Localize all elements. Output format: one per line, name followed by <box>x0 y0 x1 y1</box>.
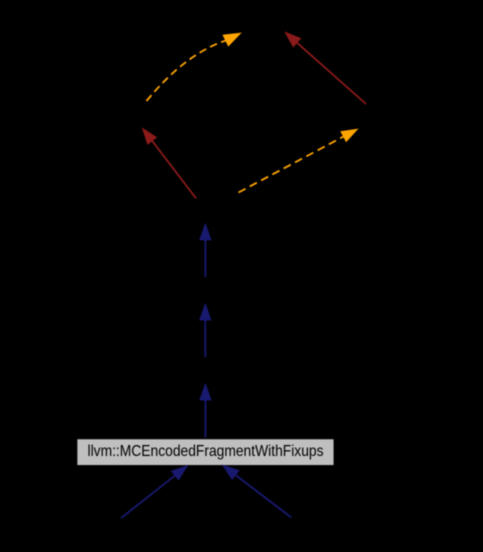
node llvm::MCFragment (invisible black box) <box>135 278 275 305</box>
node llvm::ilist_node (mid-left, invisible black box) <box>60 101 235 129</box>
label llvm::MCEncodedFragmentWithFixups <box>88 443 324 460</box>
arrowhead B (dark red) <box>285 32 300 46</box>
arrowhead G (blue) <box>200 384 211 400</box>
svg-text:llvm::MCEncodedFragmentWithFix: llvm::MCEncodedFragmentWithFixups <box>88 443 324 460</box>
arrowhead H (blue) <box>172 466 188 480</box>
arrowhead F (blue) <box>200 304 211 320</box>
arrowhead E (blue) <box>200 224 211 240</box>
arrowhead C (dark red) <box>143 129 157 145</box>
node llvm::ilist_node_with_parent instance (invisible black box) <box>68 199 344 225</box>
node llvm::MCDataFragment (bottom-left, invisible black box) <box>40 519 200 546</box>
arrowhead I (blue) <box>223 466 239 480</box>
inheritance arrow H: MCDataFragment to MCEncodedFragmentWithFixups (blue) <box>121 475 176 518</box>
inheritance arrow I: MCRelaxableFragment to MCEncodedFragmentWithFixups (blue) <box>235 475 291 518</box>
private-inheritance arrow B: mid-right node to top node (dark red) <box>297 43 366 104</box>
inheritance arrow E: MCFragment to ilist_node_with_parent (blue) <box>204 240 206 278</box>
template-instantiation arrow A: ilist_node<MCFragment> to ilist_node (orange dashed, curved) <box>147 41 226 102</box>
template-instantiation arrow D: instance to generic ilist_node_with_parent (orange dashed) <box>239 137 344 193</box>
node llvm::MCRelaxableFragment (bottom-right, invisible black box) <box>230 519 405 546</box>
inheritance arrow F: MCEncodedFragment to MCFragment (blue) <box>204 320 206 358</box>
arrowhead D (orange) <box>341 129 357 141</box>
node llvm::ilist_node_impl (top, invisible black box) <box>155 6 325 33</box>
node llvm::MCEncodedFragmentWithFixups (highlighted grey box) <box>77 439 335 466</box>
node llvm::ilist_node_with_parent generic (mid-right, invisible black box) <box>300 104 480 130</box>
inheritance arrow G: MCEncodedFragmentWithFixups to MCEncodedFragment (blue) <box>204 400 206 438</box>
arrowhead A (orange) <box>223 33 240 46</box>
node llvm::MCEncodedFragment (invisible black box) <box>110 358 300 384</box>
private-inheritance arrow C: ilist_node_with_parent instance to ilist_node<MCFragment> (dark red) <box>152 141 197 199</box>
